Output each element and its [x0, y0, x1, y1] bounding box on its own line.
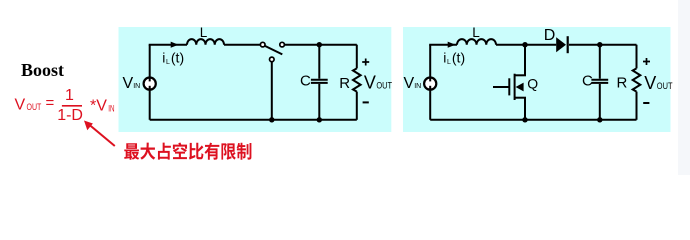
svg-text:V: V [15, 96, 26, 113]
svg-text:IN: IN [108, 103, 114, 113]
svg-text:(t): (t) [171, 49, 184, 65]
svg-text:L: L [200, 25, 208, 40]
svg-text:i: i [162, 49, 165, 65]
svg-text:V: V [404, 75, 415, 92]
svg-text:L: L [447, 59, 451, 66]
svg-text:OUT: OUT [376, 81, 392, 92]
svg-text:R: R [339, 75, 350, 92]
svg-text:*V: *V [90, 97, 107, 114]
svg-text:D: D [544, 27, 556, 44]
svg-text:C: C [300, 73, 311, 90]
svg-text:Q: Q [527, 75, 538, 91]
svg-text:R: R [617, 75, 628, 92]
svg-text:L: L [472, 25, 480, 40]
svg-text:V: V [123, 75, 134, 92]
svg-text:i: i [443, 49, 446, 65]
svg-text:IN: IN [133, 83, 140, 90]
svg-text:=: = [46, 95, 55, 112]
svg-text:1: 1 [65, 87, 74, 104]
svg-text:Boost: Boost [21, 60, 64, 80]
svg-text:OUT: OUT [657, 81, 673, 92]
svg-text:L: L [166, 59, 170, 66]
svg-text:C: C [582, 73, 593, 90]
svg-text:(t): (t) [452, 49, 465, 65]
svg-text:1-D: 1-D [57, 107, 83, 124]
svg-text:OUT: OUT [27, 102, 42, 112]
svg-text:V: V [364, 73, 376, 93]
svg-text:IN: IN [414, 83, 421, 90]
svg-text:V: V [644, 73, 656, 93]
